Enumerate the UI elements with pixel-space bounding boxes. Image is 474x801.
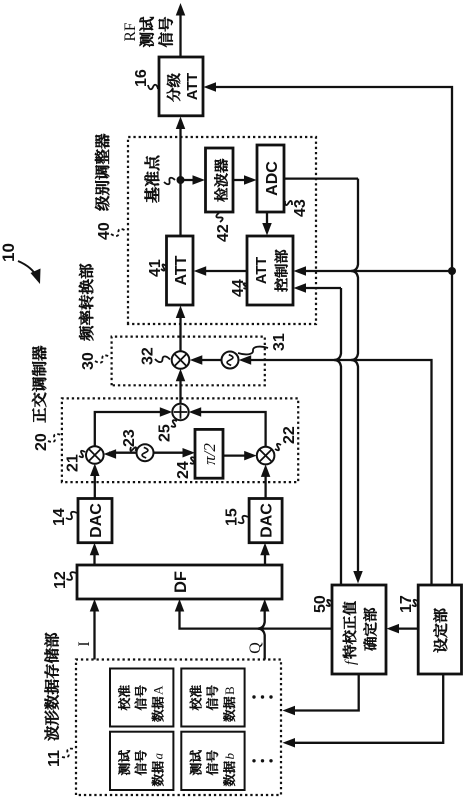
graded attenuator 分级ATT 16 [159, 57, 203, 116]
data box 校准信号数据A [110, 669, 173, 727]
svg-text:24: 24 [175, 461, 192, 479]
svg-text:32: 32 [140, 347, 157, 365]
svg-text:a: a [151, 753, 166, 760]
svg-text:ATT: ATT [173, 255, 190, 285]
setting unit 设定部 17 [418, 585, 461, 674]
oscillator 23 [137, 444, 154, 461]
svg-text:ATT: ATT [254, 257, 270, 284]
wire ATT41 to graded ATT 16, through reference node [179, 122, 181, 236]
node reference point (基准点) [177, 176, 185, 184]
wire setting17 to waveform memory [288, 674, 444, 743]
quadrature modulator box 20 (dashed) [62, 398, 298, 482]
svg-text:17: 17 [398, 595, 415, 613]
f-characteristic correction determiner box 50 [332, 585, 386, 674]
wire controller44 to ATT41 [199, 270, 247, 272]
adder 25 [172, 404, 188, 420]
wire ADC to ATT controller 44 [266, 212, 268, 230]
wire mixer22 to adder 25 [194, 412, 266, 447]
wire osc31 to mixer32 [195, 359, 222, 361]
svg-text:41: 41 [147, 259, 164, 277]
data box 测试信号数据a [110, 732, 173, 790]
wire mixer32 to ATT 41 [179, 311, 181, 351]
ellipsis below box b [252, 759, 272, 762]
svg-text:f: f [343, 659, 359, 665]
data box 测试信号数据b [181, 732, 244, 790]
svg-text:10: 10 [0, 243, 18, 262]
detector 检波器 42 [206, 148, 234, 212]
wire node to detector 42 [181, 179, 201, 181]
data box 校准信号数据B [181, 669, 244, 727]
wire mixer21 to adder 25 [95, 412, 167, 446]
wire determiner50 to waveform memory [288, 674, 359, 711]
svg-text:15: 15 [224, 508, 241, 526]
ATT controller ATT控制部 44 [247, 236, 293, 305]
attenuator ATT 41 [167, 236, 194, 305]
level adjuster box 40 (dashed) [128, 137, 316, 324]
ADC 43 [257, 145, 284, 212]
svg-text:b: b [222, 753, 237, 760]
svg-text:50: 50 [312, 595, 329, 613]
oscillator 31 [222, 352, 239, 369]
wire ADC43 output down/left to determiner 50, hops over two verticals [284, 177, 358, 179]
wire pi/2 to mixer 22 [223, 454, 252, 456]
wire RF test signal output [179, 9, 181, 58]
svg-text:12: 12 [52, 571, 69, 589]
wire detector to ADC 43 [233, 179, 251, 181]
wire DAC15 to mixer 22 [264, 470, 266, 499]
wire adder25 to mixer 32 [179, 374, 181, 404]
svg-text:Q: Q [247, 642, 264, 654]
wire setting17 up to graded ATT16 with junction [209, 87, 453, 585]
svg-text:DAC: DAC [88, 503, 105, 538]
wire junction to controller 44 [299, 270, 453, 272]
wire I: memory to DF [93, 604, 95, 660]
svg-text:14: 14 [51, 508, 68, 526]
wire osc23 to mixer21 [109, 452, 137, 454]
svg-text:B: B [222, 686, 237, 695]
svg-text:22: 22 [281, 426, 298, 444]
svg-text:DF: DF [172, 571, 190, 593]
wire osc23 to pi/2 [154, 452, 191, 454]
mixer 22 [257, 447, 275, 465]
DAC 15 [249, 499, 282, 543]
ellipsis below box B [252, 695, 272, 698]
wire Q: memory to DF with hop over correction line [258, 605, 265, 660]
wire setting17 to oscillator 31 [244, 360, 432, 585]
digital filter DF 12 [77, 565, 282, 599]
svg-text:30: 30 [80, 352, 97, 370]
wire DF to DAC14 [93, 548, 95, 565]
svg-text:43: 43 [292, 199, 309, 217]
waveform data storage box 11 (dashed) [76, 660, 281, 796]
mixer 32 [172, 351, 190, 369]
svg-text:RF: RF [122, 22, 139, 41]
svg-text:ATT: ATT [185, 73, 201, 100]
DAC 14 [78, 499, 112, 543]
wire DAC14 to mixer 21 [94, 469, 96, 499]
wire DF to DAC15 [264, 548, 266, 565]
svg-text:DAC: DAC [259, 503, 276, 538]
mixer 21 [86, 446, 104, 464]
label 基准点 [144, 156, 159, 203]
svg-text:16: 16 [133, 69, 150, 87]
svg-text:A: A [151, 685, 166, 695]
svg-text:40: 40 [96, 222, 113, 240]
frequency converter box 30 (dashed) [112, 337, 265, 386]
svg-text:11: 11 [46, 750, 63, 767]
wire setting17 to determiner 50 [392, 627, 418, 629]
svg-text:ADC: ADC [264, 161, 281, 196]
svg-text:π/2: π/2 [200, 443, 219, 465]
wire determiner50 to controller44, hop over osc wire [334, 288, 341, 585]
svg-text:42: 42 [215, 224, 232, 242]
junction dot on setting wire [448, 267, 456, 275]
phase shifter pi/2 box 24 [195, 429, 223, 478]
svg-text:I: I [76, 641, 93, 646]
wire determiner50 to DF (correction values) [180, 605, 333, 629]
svg-text:31: 31 [271, 333, 288, 351]
svg-text:20: 20 [33, 433, 50, 451]
svg-text:23: 23 [121, 429, 138, 447]
